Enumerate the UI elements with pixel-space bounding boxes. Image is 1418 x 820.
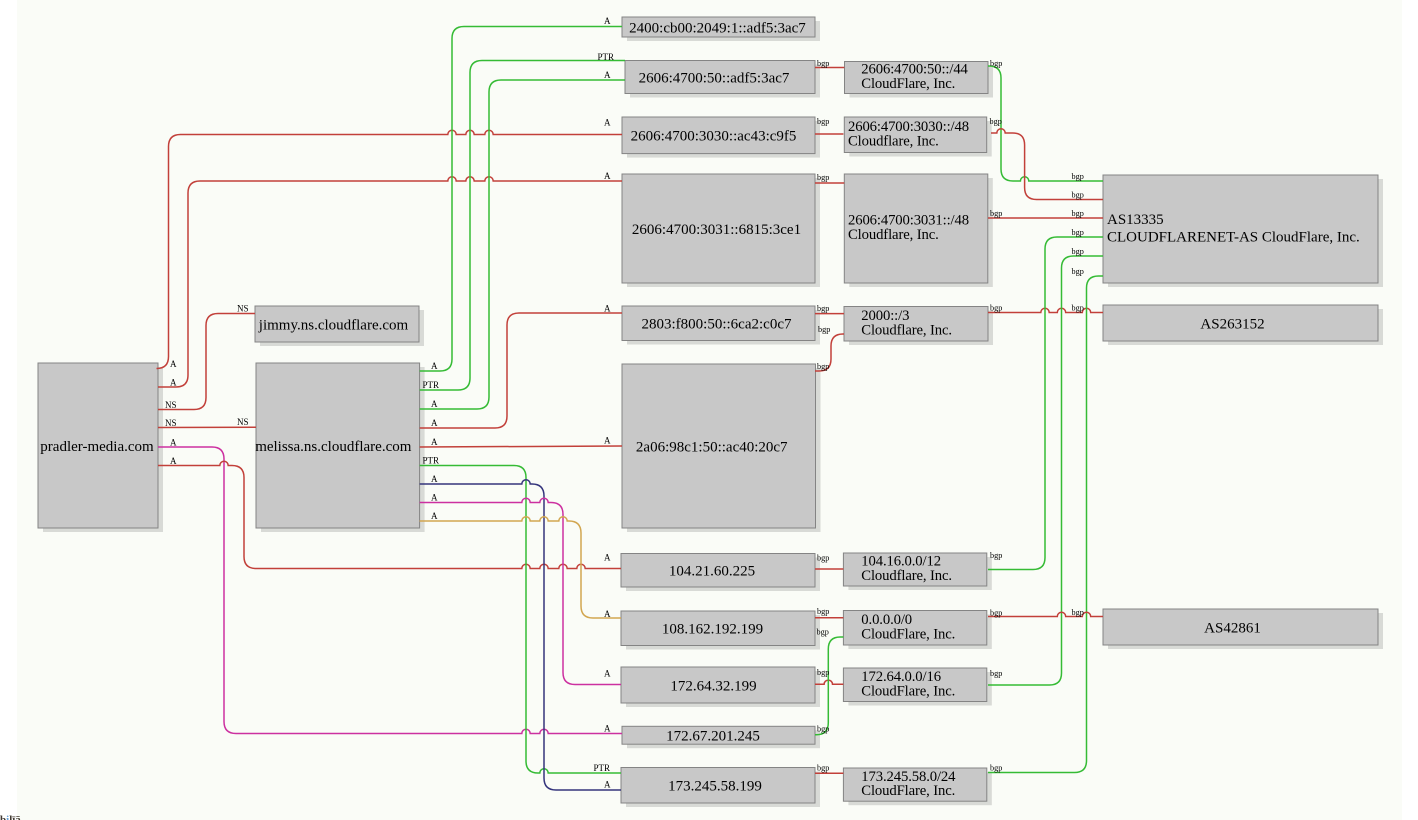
svg-text:A: A [604,724,611,734]
svg-text:bgp: bgp [1072,191,1084,200]
svg-text:A: A [604,171,611,181]
svg-text:NS: NS [237,304,249,314]
svg-text:bgp: bgp [817,173,829,182]
svg-text:bgp: bgp [1072,228,1084,237]
svg-text:2803:f800:50::6ca2:c0c7: 2803:f800:50::6ca2:c0c7 [642,317,792,333]
svg-text:A: A [431,437,438,447]
svg-text:A: A [431,361,438,371]
svg-text:AS13335: AS13335 [1107,212,1164,228]
svg-text:bgp: bgp [990,764,1002,773]
svg-text:A: A [604,669,611,679]
svg-text:Cloudflare, Inc.: Cloudflare, Inc. [848,227,939,243]
svg-text:CloudFlare, Inc.: CloudFlare, Inc. [861,76,955,92]
svg-text:bgp: bgp [990,609,1002,618]
svg-text:2400:cb00:2049:1::adf5:3ac7: 2400:cb00:2049:1::adf5:3ac7 [629,20,806,36]
svg-text:bgp: bgp [817,304,829,313]
svg-text:bgp: bgp [1072,209,1084,218]
svg-text:2606:4700:50::adf5:3ac7: 2606:4700:50::adf5:3ac7 [639,70,790,86]
svg-text:172.67.201.245: 172.67.201.245 [666,729,760,745]
svg-text:bgp: bgp [990,59,1002,68]
svg-text:A: A [604,553,611,563]
svg-text:bgp: bgp [990,209,1002,218]
svg-text:NS: NS [165,400,177,410]
svg-text:bgp: bgp [990,117,1002,126]
svg-text:bgp: bgp [817,764,829,773]
svg-text:104.21.60.225: 104.21.60.225 [669,564,755,580]
svg-text:bgp: bgp [1072,304,1084,313]
svg-text:Cloudflare, Inc.: Cloudflare, Inc. [861,322,952,338]
svg-text:bgp: bgp [818,325,830,334]
svg-text:bgp: bgp [817,607,829,616]
svg-text:melissa.ns.cloudflare.com: melissa.ns.cloudflare.com [255,439,412,455]
svg-text:bgp: bgp [990,669,1002,678]
svg-text:jimmy.ns.cloudflare.com: jimmy.ns.cloudflare.com [258,317,409,333]
svg-text:bgp: bgp [1072,172,1084,181]
svg-text:A: A [604,780,611,790]
svg-text:bgp: bgp [990,304,1002,313]
svg-text:A: A [604,609,611,619]
svg-text:bgp: bgp [990,551,1002,560]
svg-text:CLOUDFLARENET-AS CloudFlare, I: CLOUDFLARENET-AS CloudFlare, Inc. [1107,230,1360,246]
svg-text:bgp: bgp [817,554,829,563]
svg-text:bgp: bgp [817,59,829,68]
svg-text:bgp: bgp [1072,608,1084,617]
svg-text:CloudFlare, Inc.: CloudFlare, Inc. [861,683,955,699]
svg-text:A: A [431,418,438,428]
svg-text:A: A [604,70,611,80]
svg-text:Cloudflare, Inc.: Cloudflare, Inc. [848,133,939,149]
svg-text:A: A [431,474,438,484]
svg-text:CloudFlare, Inc.: CloudFlare, Inc. [861,626,955,642]
svg-text:PTR: PTR [423,380,440,390]
svg-text:2606:4700:3030::ac43:c9f5: 2606:4700:3030::ac43:c9f5 [631,129,797,145]
svg-text:bgp: bgp [817,668,829,677]
svg-text:bgp: bgp [1072,267,1084,276]
svg-text:CloudFlare, Inc.: CloudFlare, Inc. [861,783,955,799]
svg-text:A: A [604,118,611,128]
svg-text:108.162.192.199: 108.162.192.199 [662,622,763,638]
svg-text:bgp: bgp [817,362,829,371]
svg-text:AS263152: AS263152 [1200,316,1264,332]
svg-text:NS: NS [165,418,177,428]
svg-text:172.64.32.199: 172.64.32.199 [670,678,756,694]
svg-text:A: A [170,456,177,466]
svg-text:PTR: PTR [598,52,615,62]
svg-text:A: A [604,304,611,314]
svg-text:bgp: bgp [1072,247,1084,256]
svg-text:A: A [431,511,438,521]
svg-text:bgp: bgp [817,628,829,637]
svg-text:AS42861: AS42861 [1204,620,1261,636]
svg-text:2606:4700:3031::6815:3ce1: 2606:4700:3031::6815:3ce1 [632,222,801,238]
svg-text:A: A [604,16,611,26]
svg-text:A: A [431,399,438,409]
svg-text:bgp: bgp [817,117,829,126]
svg-text:pradler-media.com: pradler-media.com [40,439,154,455]
svg-text:Cloudflare, Inc.: Cloudflare, Inc. [861,568,952,584]
svg-text:NS: NS [237,417,249,427]
svg-text:A: A [170,359,177,369]
svg-text:PTR: PTR [594,763,611,773]
svg-text:A: A [170,438,177,448]
svg-text:2a06:98c1:50::ac40:20c7: 2a06:98c1:50::ac40:20c7 [636,439,788,455]
svg-text:A: A [431,493,438,503]
svg-text:PTR: PTR [423,456,440,466]
svg-text:A: A [604,436,611,446]
svg-text:bilīā: bilīā [0,814,21,820]
svg-text:bgp: bgp [817,725,829,734]
svg-text:173.245.58.199: 173.245.58.199 [668,779,762,795]
svg-text:A: A [170,378,177,388]
